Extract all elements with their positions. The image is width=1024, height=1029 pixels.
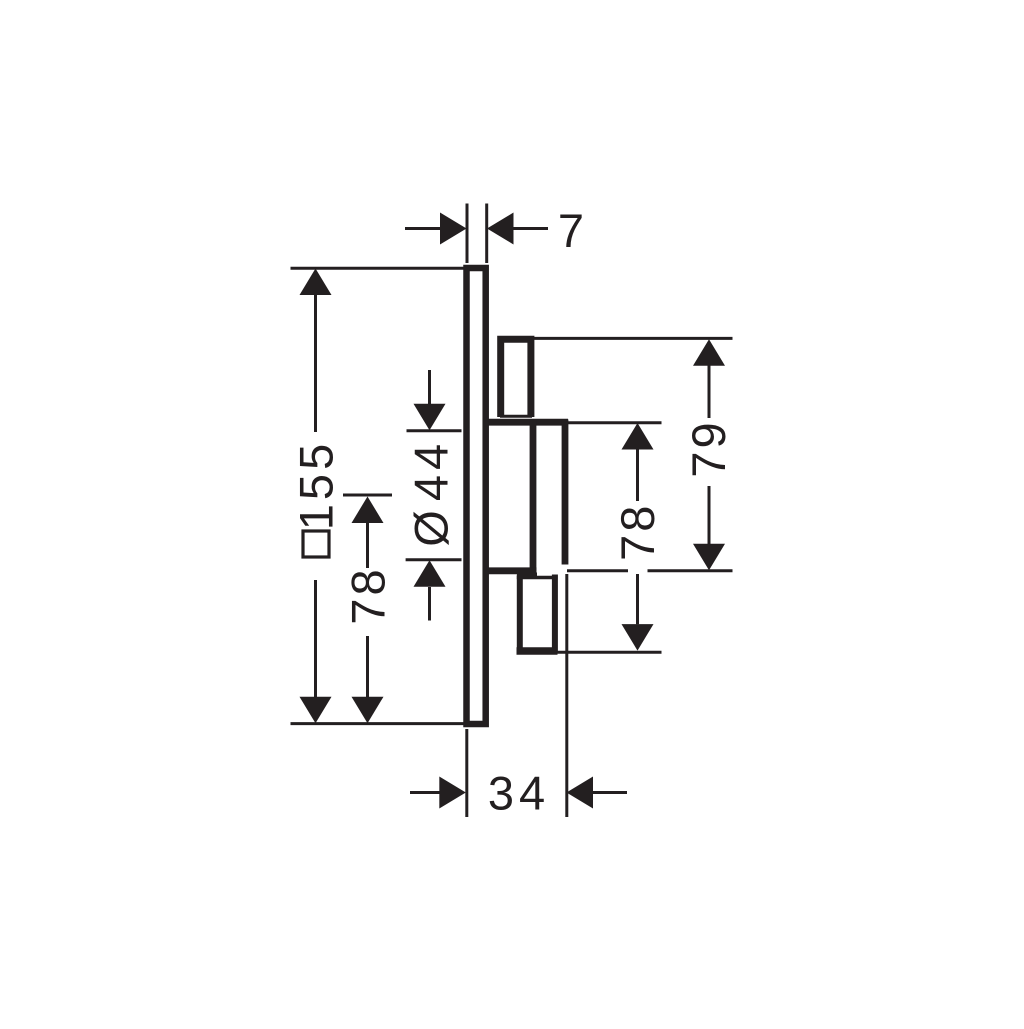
extension line right (78 upper datum): [566, 421, 662, 424]
extension line bottom-left (plate bottom, y155 lower datum): [291, 722, 467, 725]
wall plate (side profile, thin vertical rectangle): [467, 268, 486, 724]
arrow 155 bottom: [300, 697, 332, 724]
extension line down-left (34 left datum): [465, 729, 468, 817]
extension line top-right (79 upper datum): [534, 337, 733, 340]
lower handle block bottom edge: [517, 647, 558, 655]
dim line 7 left tail: [405, 227, 441, 230]
arrow 155 top: [300, 269, 332, 296]
dim line 79 lower segment: [708, 486, 711, 544]
arrow 79 top: [693, 339, 725, 366]
arrow 34 right: [567, 777, 594, 809]
dim line 34 left tail: [410, 791, 442, 794]
dim line d44 lower segment: [428, 587, 431, 621]
dim line d44 upper segment: [428, 370, 431, 405]
arrow 78-right top: [622, 423, 654, 450]
extension line right (78 lower datum): [556, 651, 662, 654]
tick 78-left upper: [343, 494, 392, 497]
extension line above plate right (7 dim): [485, 204, 488, 264]
lower handle block right edge: [552, 575, 558, 652]
main body bottom edge: [488, 567, 536, 574]
upper handle block (small rectangle on top): [501, 339, 531, 417]
svg-text:79: 79: [682, 419, 735, 477]
tick diameter 44 lower: [406, 558, 462, 561]
extension line down-right (34 right datum): [565, 574, 568, 817]
dim line 155 upper segment: [314, 294, 317, 432]
extension line above plate left (7 dim): [466, 204, 469, 264]
tick diameter 44 upper: [407, 429, 462, 432]
dim line 7 right tail: [513, 227, 549, 230]
square symbol of label 155: [303, 531, 329, 557]
lower handle block (small rectangle at bottom): [517, 575, 523, 652]
lower handle block corner patch: [517, 573, 537, 579]
svg-text:155: 155: [290, 440, 343, 530]
dim line 79 upper segment: [708, 365, 711, 418]
extension line top-left (plate top, y155 upper datum): [291, 267, 467, 270]
dim line 78-left lower segment: [366, 636, 369, 698]
svg-text:Ø44: Ø44: [405, 439, 458, 547]
dim line 78-right upper segment: [636, 449, 639, 501]
dim line 155 lower segment: [314, 580, 317, 698]
dim line 78-right lower segment: [636, 574, 639, 624]
main body inner divider: [530, 420, 537, 574]
svg-text:78: 78: [342, 566, 395, 624]
upper handle block bottom thin edge: [500, 415, 532, 418]
arrow 78-left bottom: [352, 697, 384, 724]
main body top edge: [488, 419, 568, 426]
arrow d44 lower (points up): [414, 560, 446, 587]
arrow 7 right: [487, 213, 514, 245]
svg-text:7: 7: [558, 204, 584, 257]
arrow 34 left: [439, 777, 466, 809]
arrow 79 bottom: [693, 544, 725, 571]
svg-text:78: 78: [611, 503, 664, 561]
arrow 7 left: [440, 213, 467, 245]
dim line 34 right tail: [591, 791, 628, 794]
dim line 78-left upper segment: [366, 523, 369, 568]
svg-text:34: 34: [488, 767, 550, 820]
arrow 78-left top: [352, 497, 384, 524]
lower handle block top edge: [517, 576, 558, 580]
main body right edge: [562, 420, 569, 565]
extension line right (79 lower datum): [567, 569, 733, 572]
arrow d44 upper (points down): [414, 404, 446, 431]
arrow 78-right bottom: [622, 624, 654, 651]
